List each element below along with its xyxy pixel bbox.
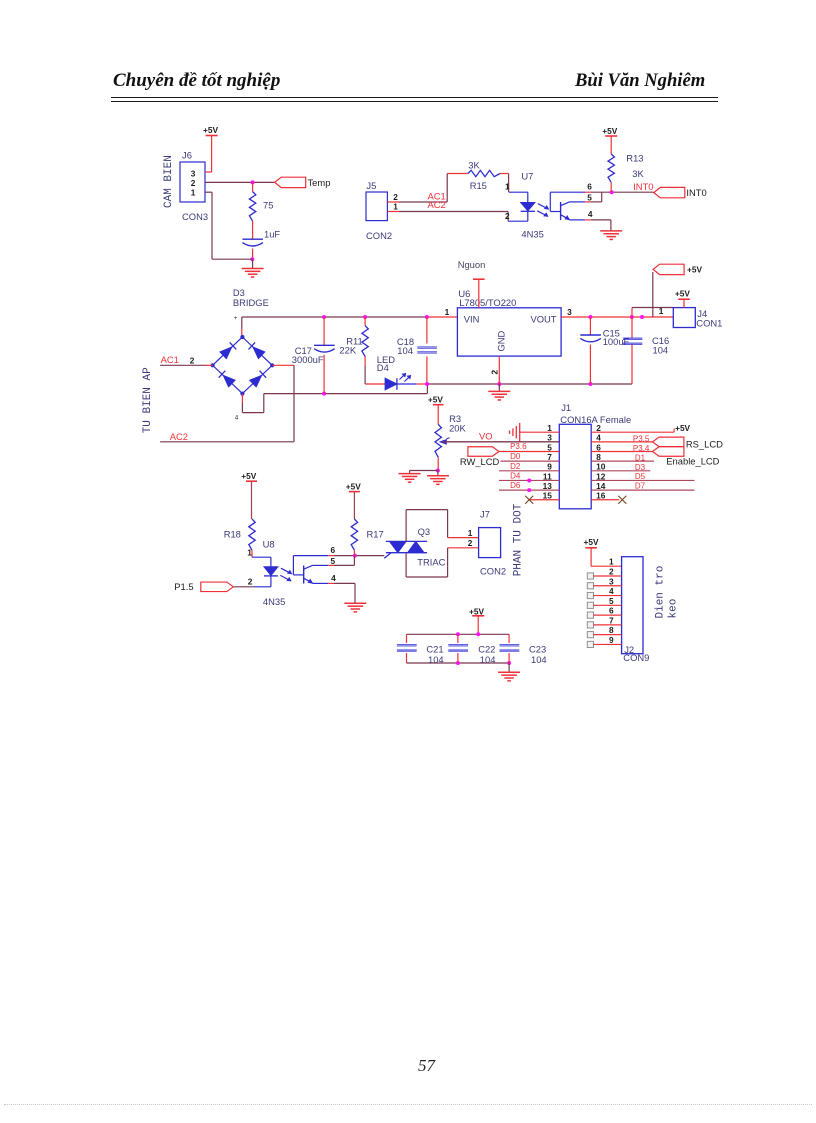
svg-text:R13: R13 (626, 153, 643, 164)
svg-text:5: 5 (330, 556, 335, 566)
svg-text:7: 7 (547, 452, 552, 462)
svg-text:+5V: +5V (428, 395, 443, 405)
svg-text:14: 14 (596, 481, 606, 491)
svg-text:4N35: 4N35 (521, 228, 543, 239)
svg-text:CON1: CON1 (696, 318, 722, 329)
svg-text:+5V: +5V (584, 537, 599, 547)
svg-text:104: 104 (531, 654, 547, 665)
svg-text:Enable_LCD: Enable_LCD (666, 455, 719, 466)
svg-text:5: 5 (587, 193, 592, 203)
svg-text:3: 3 (609, 576, 614, 586)
svg-text:+5V: +5V (687, 264, 702, 274)
svg-text:104: 104 (428, 654, 444, 665)
svg-text:P3.6: P3.6 (510, 442, 527, 451)
svg-text:+5V: +5V (675, 423, 690, 433)
svg-text:4N35: 4N35 (263, 596, 285, 607)
svg-text:1: 1 (393, 202, 398, 212)
svg-text:3000uF: 3000uF (292, 354, 324, 365)
svg-text:VIN: VIN (464, 313, 480, 324)
svg-text:+5V: +5V (241, 471, 256, 481)
svg-text:2: 2 (609, 566, 614, 576)
svg-text:Nguon: Nguon (458, 259, 486, 270)
svg-text:C23: C23 (529, 643, 546, 654)
svg-text:1: 1 (247, 548, 252, 558)
svg-text:+5V: +5V (675, 288, 690, 298)
svg-text:20K: 20K (449, 422, 466, 433)
svg-text:J6: J6 (182, 150, 192, 161)
svg-text:D4: D4 (377, 362, 389, 373)
svg-text:P1.5: P1.5 (174, 581, 193, 592)
svg-text:8: 8 (609, 625, 614, 635)
svg-text:RS_LCD: RS_LCD (686, 439, 723, 450)
svg-text:104: 104 (653, 345, 669, 356)
svg-text:3: 3 (567, 307, 572, 317)
svg-text:D6: D6 (510, 481, 521, 490)
svg-text:1: 1 (468, 528, 473, 538)
svg-text:6: 6 (596, 442, 601, 452)
svg-text:2: 2 (190, 355, 195, 365)
svg-text:6: 6 (587, 181, 592, 191)
svg-text:+5V: +5V (469, 606, 484, 616)
svg-text:3: 3 (547, 433, 552, 443)
svg-text:AC2: AC2 (170, 431, 188, 442)
svg-text:5: 5 (547, 442, 552, 452)
svg-text:+: + (234, 316, 238, 322)
svg-text:BRIDGE: BRIDGE (233, 297, 269, 308)
svg-text:16: 16 (596, 491, 606, 501)
svg-text:D2: D2 (510, 462, 521, 471)
svg-text:D3: D3 (635, 463, 646, 472)
svg-text:9: 9 (609, 635, 614, 645)
svg-text:J1: J1 (561, 402, 571, 413)
svg-text:22K: 22K (339, 345, 356, 356)
svg-text:11: 11 (543, 471, 552, 481)
svg-text:R18: R18 (224, 529, 241, 540)
svg-text:D4: D4 (510, 471, 521, 480)
svg-text:5: 5 (609, 596, 614, 606)
svg-text:AC1: AC1 (161, 354, 179, 365)
svg-text:2: 2 (468, 538, 473, 548)
svg-text:6: 6 (609, 606, 614, 616)
svg-text:7: 7 (609, 615, 614, 625)
svg-text:J7: J7 (480, 509, 490, 520)
svg-text:PHAN TU DOT: PHAN TU DOT (513, 503, 525, 576)
svg-text:2: 2 (505, 211, 510, 221)
svg-text:TRIAC: TRIAC (417, 557, 445, 568)
svg-text:U7: U7 (521, 170, 533, 181)
svg-text:GND: GND (496, 330, 507, 351)
svg-text:1: 1 (445, 307, 450, 317)
svg-text:10: 10 (596, 462, 606, 472)
svg-text:1: 1 (659, 306, 664, 316)
svg-text:1: 1 (547, 423, 552, 433)
svg-text:R15: R15 (470, 180, 487, 191)
svg-text:P3.4: P3.4 (633, 444, 650, 453)
svg-text:RW_LCD: RW_LCD (460, 456, 500, 467)
svg-text:4: 4 (609, 586, 614, 596)
svg-text:4: 4 (596, 433, 601, 443)
svg-text:1: 1 (609, 557, 614, 567)
svg-text:+5V: +5V (346, 482, 361, 492)
svg-text:6: 6 (330, 545, 335, 555)
svg-text:4: 4 (235, 416, 239, 422)
svg-text:CON2: CON2 (366, 230, 392, 241)
svg-text:104: 104 (397, 345, 413, 356)
svg-text:3K: 3K (632, 168, 644, 179)
svg-text:keo: keo (667, 599, 679, 619)
svg-text:L7805/TO220: L7805/TO220 (459, 297, 516, 308)
svg-text:R17: R17 (367, 529, 384, 540)
svg-text:P3.5: P3.5 (633, 434, 650, 443)
svg-text:C22: C22 (478, 643, 495, 654)
svg-text:2: 2 (393, 192, 398, 202)
svg-text:Temp: Temp (308, 177, 331, 188)
svg-text:TU BIEN AP: TU BIEN AP (142, 367, 154, 433)
svg-text:1uF: 1uF (264, 229, 280, 240)
svg-text:D5: D5 (635, 472, 646, 481)
svg-text:INT0: INT0 (633, 181, 653, 192)
svg-text:9: 9 (547, 462, 552, 472)
svg-text:Dien tro: Dien tro (655, 566, 667, 619)
svg-text:VOUT: VOUT (530, 313, 556, 324)
svg-text:2: 2 (490, 370, 500, 375)
svg-text:8: 8 (596, 452, 601, 462)
svg-text:13: 13 (543, 481, 553, 491)
svg-text:3: 3 (191, 169, 196, 179)
svg-text:D7: D7 (635, 482, 646, 491)
svg-text:2: 2 (191, 178, 196, 188)
svg-text:Q3: Q3 (418, 526, 431, 537)
svg-text:VO: VO (479, 430, 493, 441)
svg-text:3K: 3K (468, 160, 480, 171)
svg-text:AC2: AC2 (428, 199, 446, 210)
svg-text:INT0: INT0 (686, 187, 706, 198)
svg-text:2: 2 (596, 423, 601, 433)
svg-text:CON9: CON9 (623, 652, 649, 663)
svg-text:4: 4 (588, 209, 593, 219)
svg-text:U8: U8 (263, 538, 275, 549)
svg-text:2: 2 (248, 577, 253, 587)
svg-text:+5V: +5V (602, 126, 617, 136)
svg-text:1: 1 (191, 188, 196, 198)
svg-text:4: 4 (331, 573, 336, 583)
svg-text:D1: D1 (635, 453, 646, 462)
svg-text:CON3: CON3 (182, 211, 208, 222)
svg-text:J5: J5 (366, 180, 376, 191)
svg-text:75: 75 (263, 200, 273, 211)
svg-text:1: 1 (505, 182, 510, 192)
svg-text:15: 15 (543, 491, 553, 501)
svg-text:CON2: CON2 (480, 565, 506, 576)
svg-text:+5V: +5V (203, 125, 218, 135)
svg-text:CAM BIEN: CAM BIEN (163, 155, 175, 208)
svg-text:104: 104 (480, 654, 496, 665)
svg-text:C21: C21 (426, 643, 443, 654)
svg-text:D0: D0 (510, 452, 521, 461)
svg-text:12: 12 (596, 471, 606, 481)
